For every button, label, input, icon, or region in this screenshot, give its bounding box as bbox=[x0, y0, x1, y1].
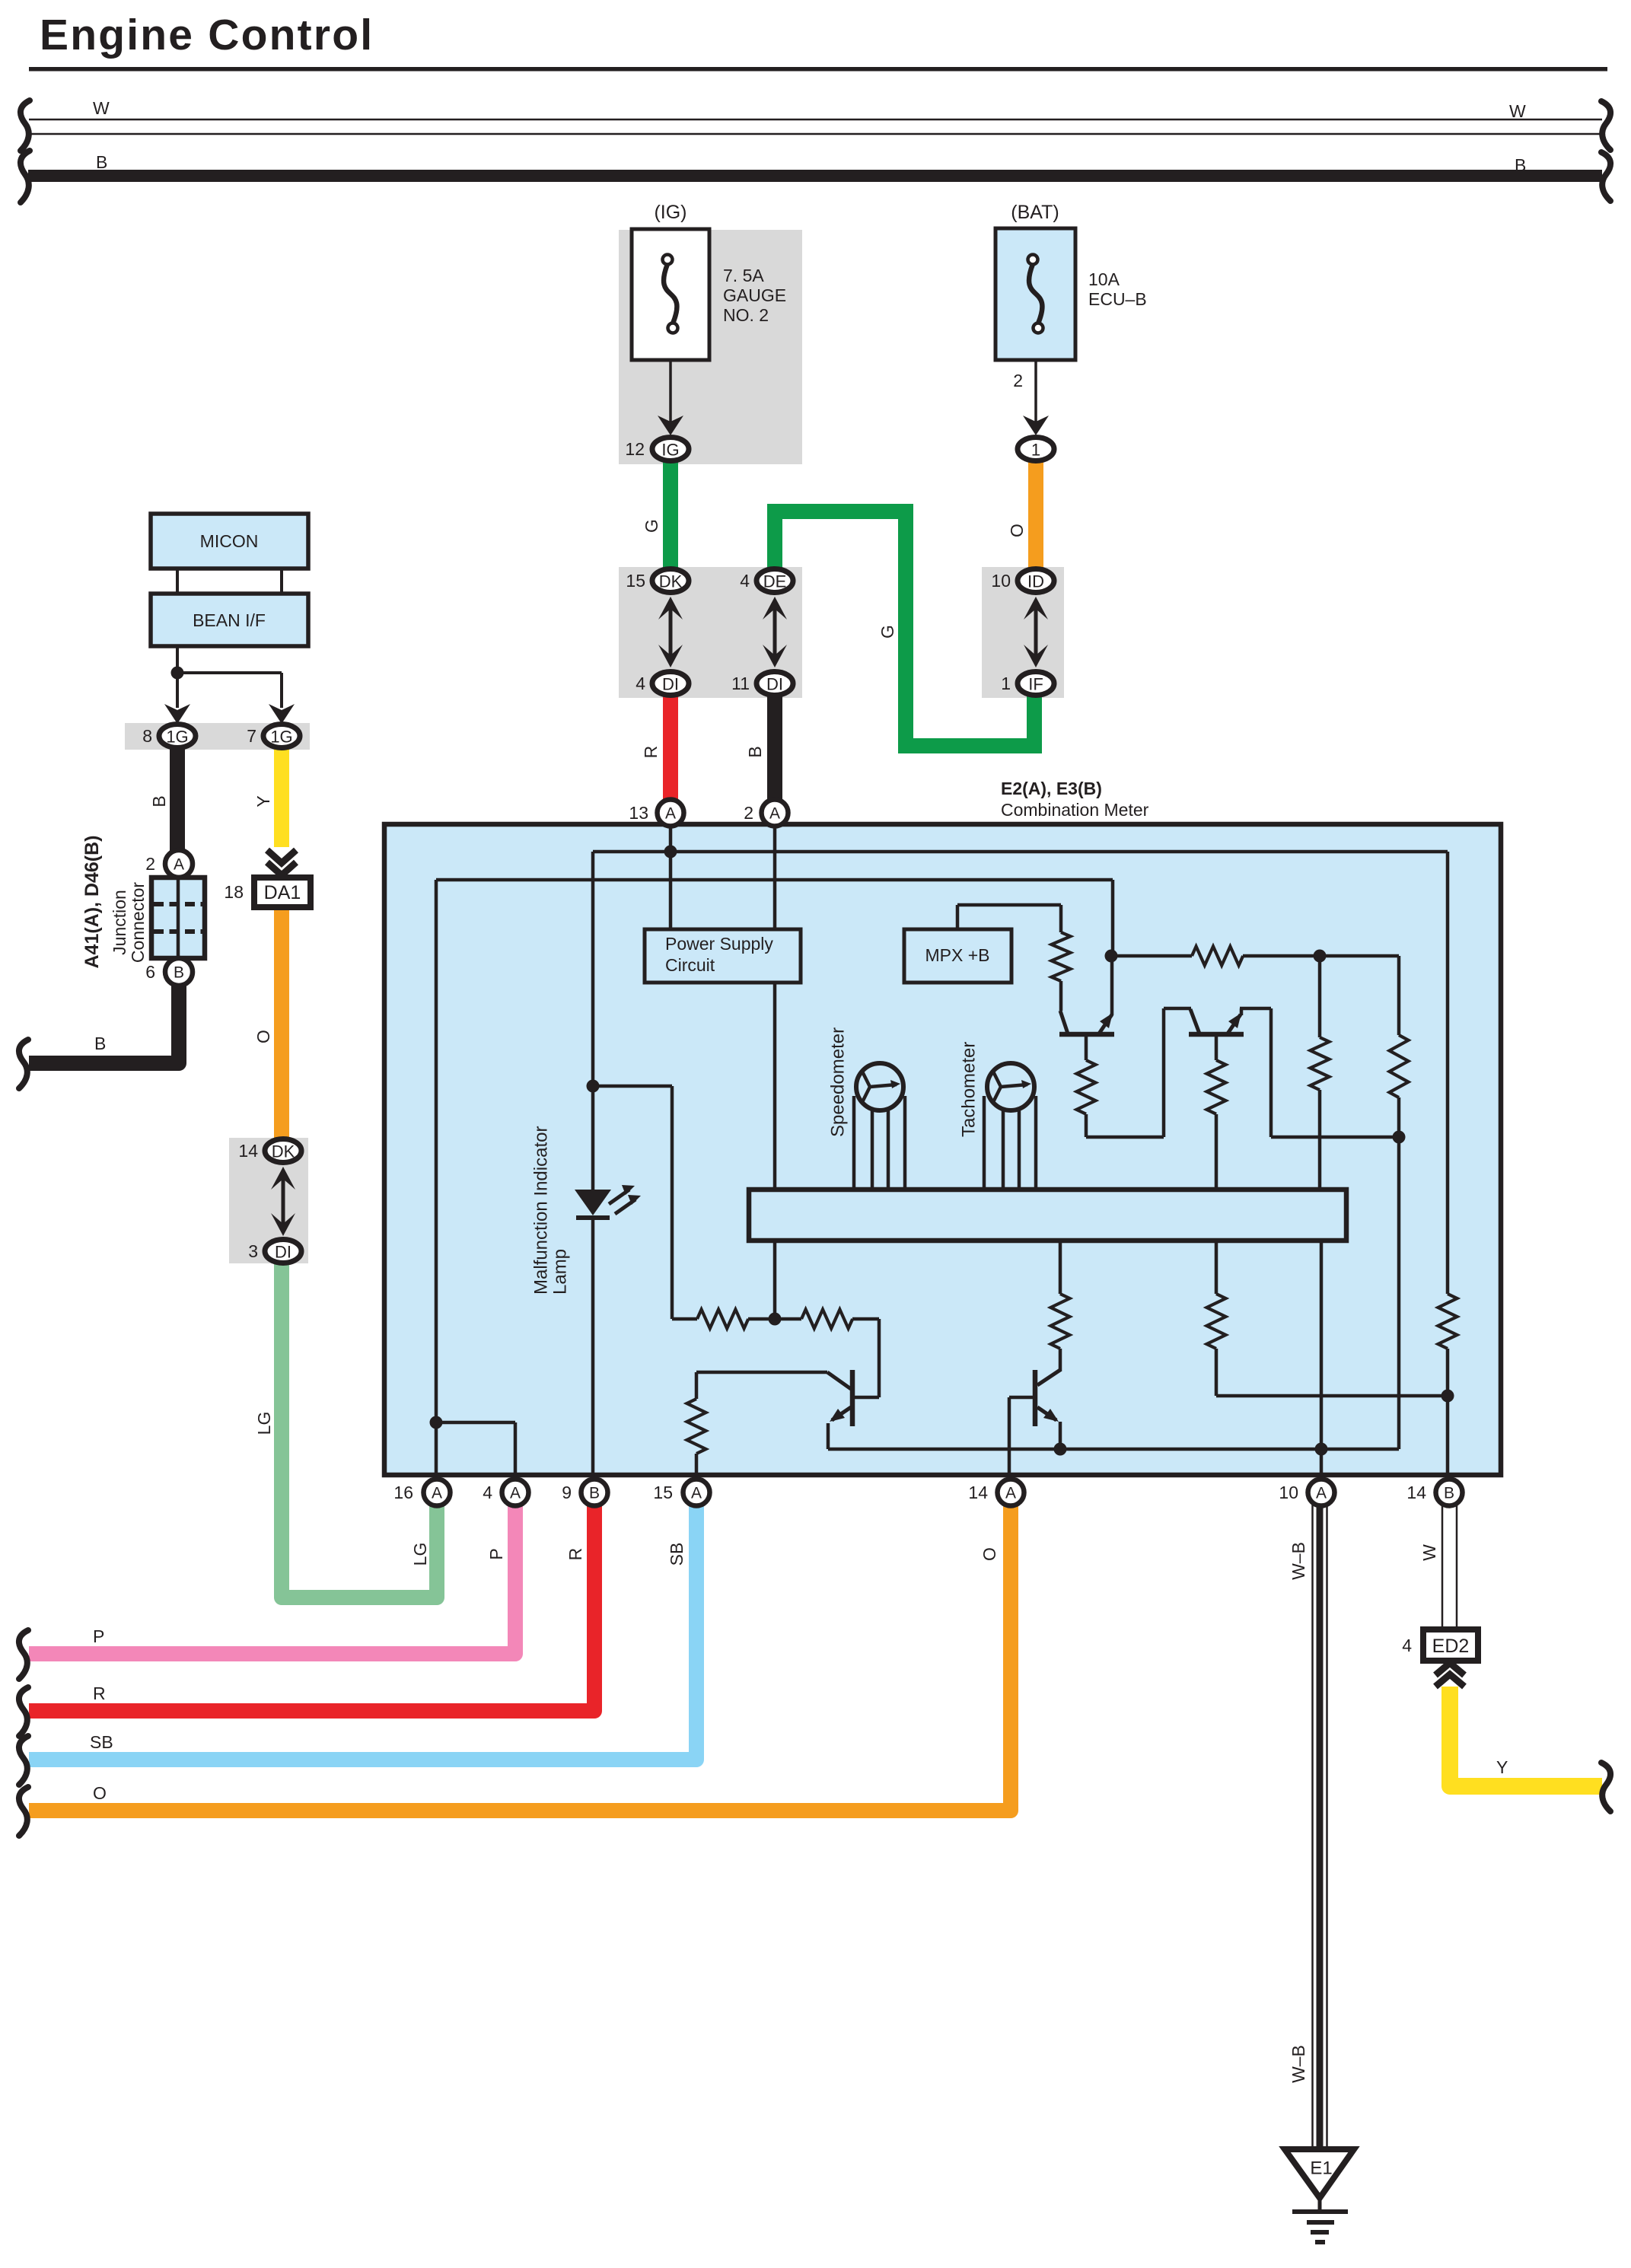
svg-text:18: 18 bbox=[224, 882, 244, 902]
svg-text:W: W bbox=[1509, 101, 1526, 121]
svg-text:B: B bbox=[96, 152, 107, 172]
resistor R5 Q1 emitter-leg bbox=[1085, 1037, 1088, 1060]
svg-text:12: 12 bbox=[625, 439, 645, 459]
panel connectors DK DE DI bbox=[619, 567, 802, 698]
svg-text:IG: IG bbox=[661, 441, 679, 460]
brace Y bbox=[1601, 1763, 1610, 1811]
wire Y 1G to DA1 bbox=[274, 742, 289, 847]
svg-text:Engine Control: Engine Control bbox=[40, 11, 374, 59]
svg-text:R: R bbox=[93, 1683, 106, 1703]
wire O fuse BAT to ID bbox=[1028, 457, 1043, 575]
svg-text:O: O bbox=[1007, 524, 1027, 537]
svg-text:B: B bbox=[745, 746, 765, 757]
svg-text:LG: LG bbox=[410, 1543, 430, 1566]
panel connectors DK DI left bbox=[229, 1138, 308, 1263]
wire Y ED2 to right bbox=[1450, 1687, 1602, 1786]
wire bus W bbox=[29, 119, 1602, 121]
svg-text:DK: DK bbox=[272, 1142, 295, 1161]
wire G fuse IG to DK bbox=[663, 457, 678, 575]
svg-text:SB: SB bbox=[90, 1732, 113, 1752]
svg-text:14: 14 bbox=[968, 1483, 988, 1502]
svg-text:15: 15 bbox=[626, 571, 645, 591]
svg-text:6: 6 bbox=[145, 962, 155, 982]
svg-text:ID: ID bbox=[1027, 572, 1044, 591]
svg-text:B: B bbox=[1515, 155, 1526, 175]
svg-text:MICON: MICON bbox=[200, 531, 259, 551]
wire node down bbox=[1397, 956, 1401, 1035]
svg-text:10: 10 bbox=[991, 571, 1011, 591]
wire base row bbox=[1111, 954, 1192, 958]
wire P pin 4A to left bbox=[29, 1499, 515, 1654]
svg-text:NO. 2: NO. 2 bbox=[723, 305, 769, 325]
svg-text:Y: Y bbox=[253, 795, 273, 807]
svg-text:B: B bbox=[174, 964, 184, 982]
svg-text:G: G bbox=[878, 625, 897, 639]
svg-text:G: G bbox=[642, 519, 661, 533]
svg-text:3: 3 bbox=[248, 1241, 258, 1261]
svg-text:4: 4 bbox=[636, 674, 645, 693]
svg-text:W–B: W–B bbox=[1289, 2045, 1308, 2083]
wire bus B bbox=[28, 170, 1602, 182]
LED malfunction indicator lamp bbox=[575, 1190, 611, 1215]
svg-text:A: A bbox=[432, 1485, 442, 1502]
transistor Q2 bbox=[1189, 1032, 1244, 1037]
svg-text:1: 1 bbox=[1031, 441, 1040, 460]
wire O DA1 to DK bbox=[274, 906, 289, 1142]
svg-text:E1: E1 bbox=[1310, 2158, 1332, 2179]
svg-text:W: W bbox=[1419, 1544, 1439, 1561]
junction arrows DK-DI left bbox=[282, 1179, 285, 1224]
svg-text:A: A bbox=[665, 805, 676, 823]
svg-text:A: A bbox=[510, 1485, 521, 1502]
svg-text:GAUGE: GAUGE bbox=[723, 285, 786, 305]
wire R2 to node bbox=[1243, 954, 1320, 958]
wire B DI to pin 2A bbox=[767, 689, 782, 807]
svg-text:4: 4 bbox=[740, 571, 750, 591]
resistor R9 bbox=[695, 1454, 699, 1479]
wire MPX to resistor bbox=[956, 905, 960, 929]
svg-text:(BAT): (BAT) bbox=[1011, 202, 1059, 223]
svg-text:A: A bbox=[1316, 1485, 1327, 1502]
combination meter box bbox=[384, 824, 1501, 1475]
wire R9 to Q3 base bbox=[696, 1371, 827, 1374]
svg-text:DA1: DA1 bbox=[264, 882, 301, 903]
svg-text:A41(A), D46(B): A41(A), D46(B) bbox=[81, 835, 103, 968]
svg-text:DE: DE bbox=[763, 572, 787, 591]
svg-text:A: A bbox=[174, 856, 184, 874]
junction connector A41 D46 bbox=[151, 878, 205, 958]
svg-text:DI: DI bbox=[662, 675, 679, 694]
svg-text:Connector: Connector bbox=[128, 882, 148, 963]
speedometer bbox=[856, 1063, 903, 1110]
wire O pin 14A to left bbox=[29, 1499, 1011, 1811]
speedometer wires bbox=[852, 1096, 856, 1190]
svg-text:14: 14 bbox=[1406, 1483, 1426, 1502]
svg-text:(IG): (IG) bbox=[654, 202, 686, 223]
svg-text:DI: DI bbox=[275, 1243, 291, 1262]
wire BEAN to 1G connectors bbox=[176, 646, 179, 708]
tachometer bbox=[987, 1063, 1034, 1110]
svg-text:1: 1 bbox=[1001, 674, 1011, 693]
wire fuse IG to connector bbox=[669, 360, 672, 423]
svg-text:1G: 1G bbox=[270, 728, 292, 747]
junction arrows ID-IF bbox=[1034, 609, 1038, 655]
brace W right bbox=[1601, 101, 1610, 150]
resistor R3 bbox=[1390, 1035, 1409, 1097]
resistor R2 bbox=[1192, 947, 1243, 966]
brace W left bbox=[21, 100, 30, 151]
junction arrows DK-DI bbox=[669, 609, 673, 655]
wire R1 to Q1 bbox=[1059, 981, 1063, 1011]
svg-text:B: B bbox=[1444, 1485, 1454, 1502]
svg-text:Combination Meter: Combination Meter bbox=[1001, 800, 1149, 820]
svg-text:Circuit: Circuit bbox=[665, 955, 715, 975]
brace B right bbox=[1601, 152, 1610, 201]
svg-text:W–B: W–B bbox=[1289, 1542, 1308, 1580]
panel connectors ID IF bbox=[982, 567, 1064, 698]
wire LED node to R7 bbox=[672, 1317, 697, 1321]
resistor R6 Q2 emitter-leg bbox=[1215, 1037, 1218, 1060]
meter lower rails bbox=[1059, 1241, 1062, 1294]
svg-text:7. 5A: 7. 5A bbox=[723, 266, 764, 285]
wire fuse BAT to connector bbox=[1034, 360, 1037, 423]
svg-text:4: 4 bbox=[483, 1483, 492, 1502]
brace P bbox=[19, 1630, 28, 1679]
wire W-B pin 10A to E1 bbox=[1311, 1503, 1314, 2149]
svg-text:15: 15 bbox=[653, 1483, 673, 1502]
svg-text:BEAN I/F: BEAN I/F bbox=[193, 610, 266, 630]
wire R7 to R8 bbox=[748, 1317, 801, 1321]
tachometer wires bbox=[983, 1096, 986, 1190]
svg-text:2: 2 bbox=[145, 854, 155, 874]
bus bar bbox=[749, 1190, 1346, 1241]
wire emitter row bbox=[828, 1448, 1399, 1451]
svg-text:O: O bbox=[253, 1030, 273, 1043]
brace SB bbox=[19, 1736, 28, 1785]
svg-text:16: 16 bbox=[393, 1483, 413, 1502]
svg-text:11: 11 bbox=[731, 674, 750, 693]
panel fuse IG bbox=[619, 230, 802, 464]
svg-text:10A: 10A bbox=[1088, 269, 1120, 289]
svg-text:Speedometer: Speedometer bbox=[828, 1027, 849, 1137]
brace B left bbox=[21, 151, 30, 202]
svg-text:R: R bbox=[641, 746, 661, 759]
svg-text:8: 8 bbox=[142, 726, 152, 746]
wires MICON to BEAN bbox=[176, 569, 179, 594]
wire B junction to left bbox=[29, 978, 179, 1063]
wire R3 down bbox=[1397, 1097, 1401, 1449]
wire LG DI to pin 16A bbox=[282, 1260, 437, 1597]
connector 1 BAT bbox=[1018, 438, 1054, 461]
svg-text:Tachometer: Tachometer bbox=[959, 1042, 980, 1137]
block Power Supply Circuit bbox=[645, 929, 801, 983]
svg-text:B: B bbox=[94, 1034, 106, 1053]
svg-text:ED2: ED2 bbox=[1432, 1636, 1470, 1657]
block MPX +B bbox=[904, 929, 1011, 983]
connector arrow ED2 bbox=[1435, 1674, 1464, 1687]
brace B wire bbox=[19, 1040, 28, 1088]
resistor R8 bbox=[801, 1310, 852, 1329]
svg-text:Y: Y bbox=[1496, 1757, 1508, 1777]
svg-text:9: 9 bbox=[562, 1483, 572, 1502]
wire SB pin 15A to left bbox=[29, 1499, 696, 1760]
resistor R4 bbox=[1318, 956, 1322, 1037]
svg-text:B: B bbox=[149, 795, 169, 807]
svg-text:ECU–B: ECU–B bbox=[1088, 289, 1147, 309]
panel connectors 1G bbox=[125, 723, 310, 750]
transistor Q4 bbox=[1033, 1370, 1038, 1426]
svg-text:4: 4 bbox=[1402, 1636, 1412, 1655]
svg-text:IF: IF bbox=[1028, 675, 1043, 694]
svg-text:Lamp: Lamp bbox=[550, 1249, 571, 1295]
svg-text:7: 7 bbox=[247, 726, 256, 746]
svg-text:A: A bbox=[1005, 1485, 1016, 1502]
junction arrows DE-DI bbox=[773, 609, 777, 655]
svg-text:13: 13 bbox=[629, 803, 648, 823]
svg-text:R: R bbox=[565, 1548, 585, 1561]
wire W pin 14B to ED2 bbox=[1441, 1503, 1444, 1629]
svg-text:2: 2 bbox=[744, 803, 753, 823]
svg-text:14: 14 bbox=[238, 1141, 258, 1161]
svg-text:Junction: Junction bbox=[110, 890, 129, 955]
meter interior rails bbox=[669, 827, 673, 929]
svg-text:O: O bbox=[980, 1547, 999, 1561]
resistor R1 bbox=[1052, 932, 1071, 981]
block MICON bbox=[151, 514, 308, 569]
transistor Q1 bbox=[1059, 1032, 1114, 1037]
svg-text:DI: DI bbox=[766, 675, 783, 694]
wire R DI to pin 13A bbox=[663, 689, 678, 807]
title underline bbox=[29, 67, 1607, 72]
svg-text:P: P bbox=[486, 1548, 506, 1559]
transistor Q3 bbox=[850, 1370, 855, 1426]
svg-text:MPX +B: MPX +B bbox=[925, 945, 989, 965]
svg-text:W: W bbox=[93, 98, 110, 118]
svg-text:Power Supply: Power Supply bbox=[665, 934, 773, 954]
svg-text:SB: SB bbox=[667, 1543, 686, 1566]
fuse 7.5A GAUGE NO.2 bbox=[632, 229, 709, 360]
svg-text:P: P bbox=[93, 1626, 104, 1646]
svg-text:A: A bbox=[769, 805, 780, 823]
svg-text:Malfunction Indicator: Malfunction Indicator bbox=[531, 1126, 552, 1295]
wire G DE to IF bbox=[775, 511, 1034, 746]
svg-text:E2(A), E3(B): E2(A), E3(B) bbox=[1001, 779, 1102, 798]
fuse 10A ECU-B bbox=[995, 228, 1075, 360]
svg-text:O: O bbox=[93, 1783, 107, 1803]
svg-text:LG: LG bbox=[254, 1412, 274, 1435]
ground E1 bbox=[1285, 2149, 1354, 2198]
svg-text:1G: 1G bbox=[166, 728, 188, 747]
block BEAN I/F bbox=[151, 594, 308, 646]
svg-text:B: B bbox=[589, 1485, 600, 1502]
resistor R7 bbox=[697, 1310, 748, 1329]
wire R pin 9B to left bbox=[29, 1499, 594, 1711]
connector arrow DA1 bbox=[267, 850, 296, 863]
brace O bbox=[19, 1787, 28, 1836]
brace R bbox=[19, 1687, 28, 1736]
svg-text:A: A bbox=[691, 1485, 702, 1502]
wire R8 to Q3 bbox=[852, 1317, 879, 1321]
svg-text:10: 10 bbox=[1279, 1483, 1298, 1502]
svg-text:DK: DK bbox=[659, 572, 683, 591]
svg-text:2: 2 bbox=[1013, 371, 1023, 390]
wire B 1G to A bbox=[170, 742, 185, 856]
